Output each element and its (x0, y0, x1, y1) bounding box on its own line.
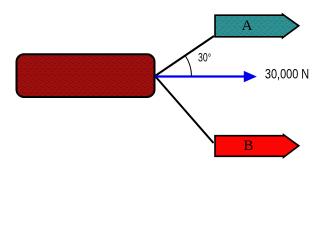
wire: rope from box to arrow A (30 deg line) (155, 36, 214, 76)
svg-text:30,000 N: 30,000 N (265, 65, 309, 81)
svg-text:B: B (243, 138, 253, 154)
blue force vector 30,000 N (155, 75, 245, 77)
angle arc 30 degrees (185, 56, 191, 76)
arrow B (red) (215, 135, 299, 158)
box (maroon rounded block) (17, 54, 155, 97)
wire: rope from box to arrow B (155, 76, 214, 143)
arrow A (teal) (215, 14, 299, 38)
svg-text:30°: 30° (198, 52, 211, 64)
svg-text:A: A (242, 18, 253, 34)
